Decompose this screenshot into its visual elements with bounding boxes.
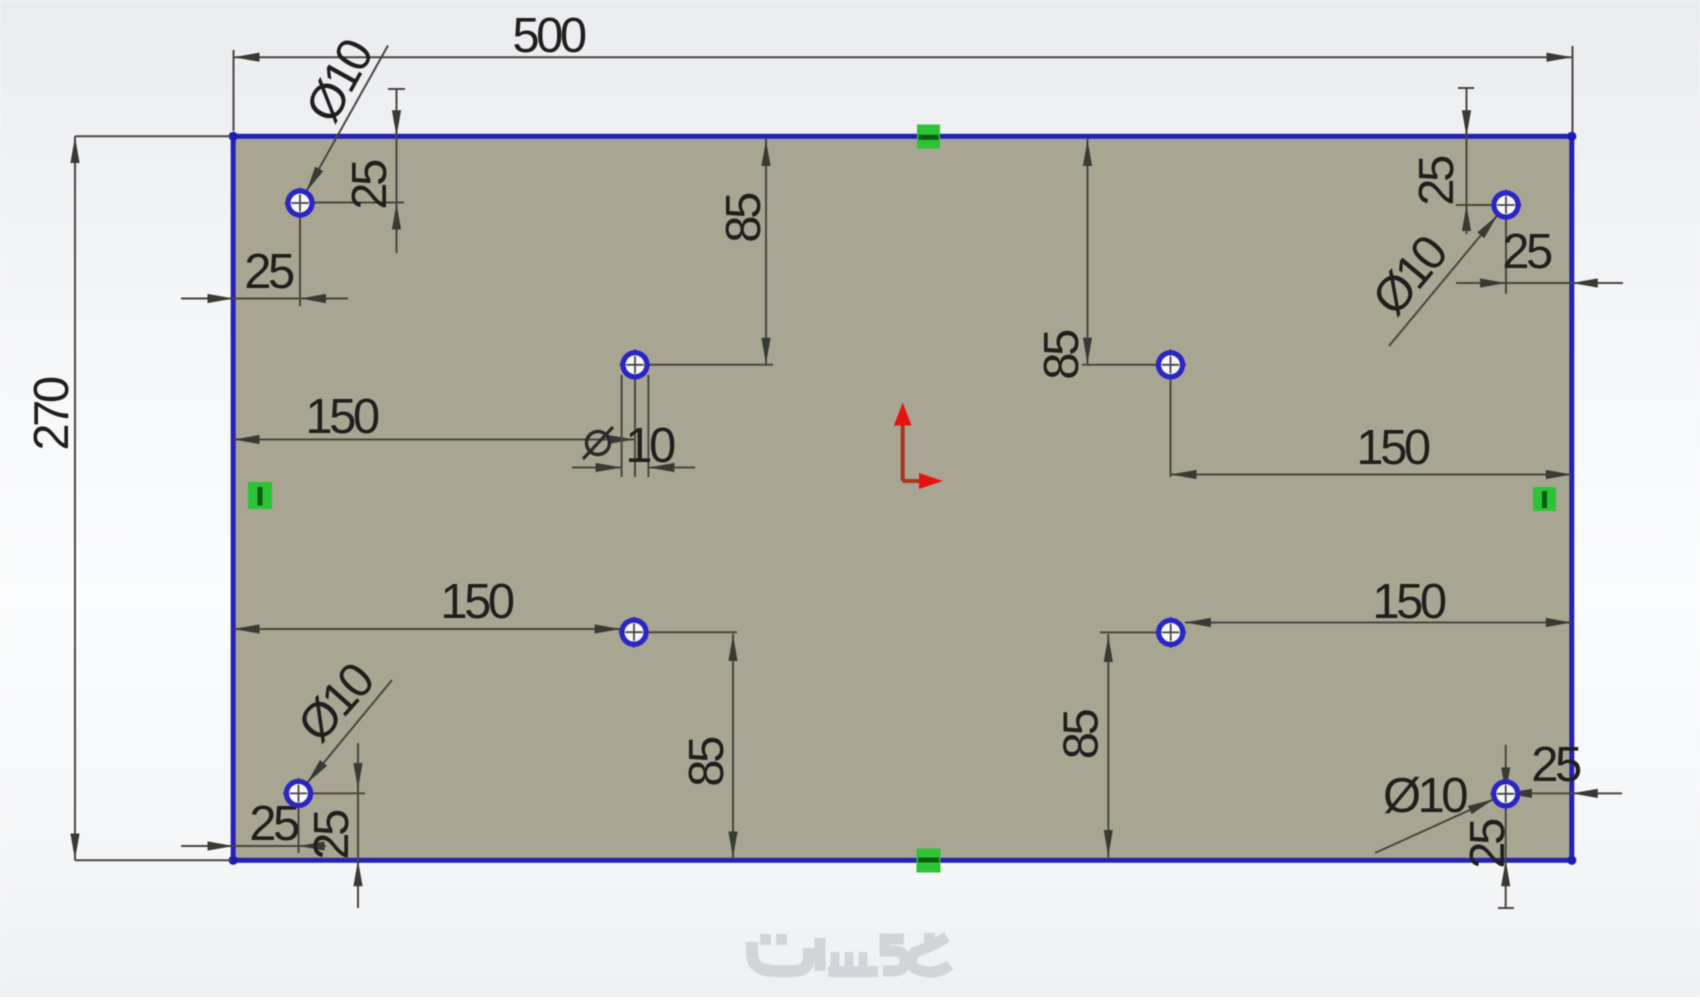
diameter leader arrow hole A4	[1468, 799, 1494, 814]
dimension 25 horizontal text (hole A2)	[1502, 225, 1552, 279]
origin marker (red axes)	[894, 403, 943, 490]
dimension 25 horizontal extension (hole A3)	[298, 793, 300, 853]
dimension 25 horizontal extension (hole A1)	[299, 203, 301, 306]
diameter leader arrow hole A3	[307, 760, 327, 783]
plate corner vertex top-right	[1567, 132, 1576, 141]
dimension 25 vertical extension (hole A2)	[1456, 204, 1506, 206]
dimension 85 text (hole C2)	[1055, 710, 1109, 760]
dimension 25 vertical line (hole A3)	[357, 743, 359, 908]
svg-text:25: 25	[1461, 819, 1515, 869]
dimension 85 line (hole B1)	[765, 139, 767, 364]
dimension 150 text (bottom-right)	[1372, 575, 1446, 629]
relation handle left-middle (vertical)	[248, 482, 272, 509]
dimension 25 horizontal arrow right (hole A1)	[300, 294, 326, 303]
svg-text:150: 150	[1356, 421, 1430, 475]
dimension 85 arrow top (hole B1)	[761, 140, 770, 166]
svg-text:25: 25	[1410, 156, 1464, 206]
plate corner vertex top-left	[229, 132, 238, 141]
dimension 25 horizontal text (hole A3)	[249, 797, 299, 851]
dimension 25 horizontal arrow left (hole A4)	[1506, 789, 1532, 798]
diameter leader arrow hole A1	[307, 167, 324, 192]
dimension 85 arrow top (hole B2)	[1083, 140, 1092, 166]
dimension 25 horizontal line (hole A4)	[1492, 792, 1622, 794]
dimension 150 line (top-right)	[1171, 474, 1572, 476]
dimension 25 vertical text (hole A4)	[1461, 819, 1515, 869]
dimension 85 line (hole C2)	[1107, 634, 1109, 858]
hole B1 (upper middle-left)	[620, 349, 651, 380]
dimension 85 text (hole B2)	[1035, 330, 1089, 380]
dimension 25 vertical arrow bottom (hole A4)	[1501, 860, 1510, 886]
diameter 10 arrow left (hole B1)	[596, 463, 622, 472]
svg-text:500: 500	[512, 9, 586, 63]
hole A2 (top-right)	[1491, 190, 1522, 221]
dimension 500 extension line right	[1572, 46, 1574, 132]
dimension 500 arrow right	[1547, 53, 1573, 62]
dimension 500 arrow left	[234, 53, 260, 62]
svg-text:85: 85	[680, 737, 734, 787]
dimension 270 arrow bottom	[70, 834, 79, 860]
dimension 85 arrow bottom (hole B2)	[1083, 338, 1092, 364]
svg-text:85: 85	[1055, 710, 1109, 760]
dimension 25 horizontal arrow right (hole A2)	[1572, 278, 1598, 287]
dimension 500 text	[512, 9, 586, 63]
dimension 25 horizontal extension (hole A2)	[1505, 218, 1507, 294]
dimension 85 arrow top (hole C2)	[1104, 636, 1113, 662]
dimension 25 vertical arrow top (hole A3)	[353, 763, 362, 789]
dimension 85 arrow bottom (hole C2)	[1104, 830, 1113, 856]
relation handle top-center (horizontal)	[917, 125, 940, 149]
svg-text:150: 150	[440, 575, 514, 629]
svg-text:25: 25	[244, 245, 294, 299]
dimension 85 extension (hole B1)	[635, 364, 773, 366]
plate corner vertex bottom-left	[229, 856, 238, 865]
diameter text hole A4	[1383, 769, 1467, 823]
diameter 10 dim line left (hole B1)	[572, 467, 622, 469]
diameter leader hole A2	[1389, 215, 1497, 346]
svg-text:270: 270	[25, 377, 79, 451]
dimension 25 vertical line (hole A2)	[1458, 88, 1474, 234]
diameter 10 arrow right (hole B1)	[648, 463, 674, 472]
diameter text hole A2	[1362, 226, 1458, 325]
dimension 85 arrow bottom (hole B1)	[761, 338, 770, 364]
plate corner vertex bottom-right	[1567, 856, 1576, 865]
relation handle right-middle (vertical)	[1533, 487, 1556, 511]
diameter leader arrow hole A2	[1477, 215, 1497, 238]
dimension 25 vertical line (hole A1)	[388, 89, 405, 253]
dimension 25 horizontal text (hole A1)	[244, 245, 294, 299]
dimension 85 text (hole C1)	[680, 737, 734, 787]
dimension 150 arrow right (bottom-right)	[1546, 618, 1572, 627]
svg-text:150: 150	[1372, 575, 1446, 629]
dimension 85 text (hole B1)	[717, 193, 771, 243]
dimension 150 text (top-right)	[1356, 421, 1430, 475]
dimension 25 vertical arrow bottom (hole A1)	[392, 204, 401, 230]
dimension 25 vertical arrow top (hole A1)	[392, 110, 401, 136]
dimension 25 horizontal arrow left (hole A3)	[208, 841, 234, 850]
dimension 270 arrow top	[70, 137, 79, 163]
dimension 270 text	[25, 377, 79, 451]
dimension 25 horizontal arrow right (hole A4)	[1572, 789, 1598, 798]
dimension 25 vertical arrow bottom (hole A2)	[1462, 205, 1471, 231]
svg-text:25: 25	[1502, 225, 1552, 279]
dimension 150 arrow left (top-left)	[234, 435, 260, 444]
dimension 270 line	[74, 136, 76, 860]
dimension 25 horizontal arrow right (hole A3)	[299, 841, 325, 850]
dimension 270 extension line bottom	[75, 859, 231, 861]
dimension 500 extension line left	[233, 50, 235, 131]
dimension 85 arrow bottom (hole C1)	[728, 832, 737, 858]
hole A1 (top-left)	[285, 188, 316, 219]
svg-text:85: 85	[1035, 330, 1089, 380]
dimension 85 line (hole B2)	[1087, 139, 1089, 364]
svg-text:10: 10	[625, 419, 675, 473]
hole A4 (bottom-right)	[1490, 778, 1521, 809]
dimension 150 arrow right (top-right)	[1546, 470, 1572, 479]
dimension 25 vertical text (hole A3)	[305, 810, 359, 860]
diameter leader hole A3	[307, 680, 392, 783]
diameter 10 dim line right (hole B1)	[648, 467, 695, 469]
dimension 150 line (bottom-right)	[1185, 622, 1572, 624]
svg-text:85: 85	[717, 193, 771, 243]
dimension 150 extension (hole C2)	[1100, 631, 1171, 633]
svg-text:25: 25	[305, 810, 359, 860]
dimension 150 arrow right (top-left)	[608, 435, 634, 444]
svg-text:Ø10: Ø10	[1383, 769, 1467, 823]
watermark khamsat logo	[752, 933, 950, 972]
dimension 25 vertical text (hole A1)	[343, 160, 397, 210]
dimension 150 arrow left (bottom-right)	[1185, 618, 1211, 627]
dimension 25 vertical extension (hole A3)	[299, 792, 366, 794]
dimension 150 extension (hole B2)	[1170, 378, 1172, 477]
dimension 85 line (hole C1)	[732, 634, 734, 858]
dimension 150 arrow left (bottom-left)	[234, 624, 260, 633]
diameter 10 symbol (hole B1)	[583, 427, 613, 459]
hole A3 (bottom-left)	[283, 778, 314, 809]
dimension 25 vertical arrow top (hole A4)	[1501, 767, 1510, 793]
dimension 25 vertical extension (hole A1)	[300, 202, 404, 204]
svg-text:150: 150	[305, 390, 379, 444]
plate outline (500x270 sheet)	[233, 136, 1572, 860]
svg-text:25: 25	[343, 160, 397, 210]
dimension 25 vertical line (hole A4)	[1498, 745, 1514, 908]
dimension 150 arrow right (bottom-left)	[595, 624, 621, 633]
dimension 150 line (top-left)	[234, 439, 635, 441]
dimension 25 horizontal arrow left (hole A1)	[208, 294, 234, 303]
dimension 150 line (bottom-left)	[234, 628, 621, 630]
diameter text hole A1	[296, 31, 384, 131]
dimension 270 extension line top	[75, 135, 231, 137]
dimension 25 vertical text (hole A2)	[1410, 156, 1464, 206]
dimension 25 vertical arrow bottom (hole A3)	[353, 860, 362, 886]
hole C2 (lower middle-right)	[1155, 617, 1186, 648]
dimension 85 extension (hole C1)	[634, 631, 737, 633]
dimension 500 line	[234, 56, 1573, 58]
dimension 25 vertical arrow top (hole A2)	[1462, 110, 1471, 136]
relation handle bottom-center (horizontal)	[917, 849, 941, 873]
diameter leader hole A1	[306, 46, 388, 193]
dimension 25 horizontal line (hole A2)	[1456, 282, 1623, 284]
svg-text:25: 25	[1531, 738, 1581, 792]
dimension 150 arrow left (top-right)	[1171, 470, 1197, 479]
diameter 10 text (hole B1)	[625, 419, 675, 473]
dimension 25 horizontal line (hole A1)	[181, 298, 348, 300]
diameter leader hole A4	[1375, 799, 1494, 853]
hole B2 (upper middle-right)	[1155, 349, 1186, 380]
dimension 150 text (top-left)	[305, 390, 379, 444]
dimension 25 horizontal line (hole A3)	[181, 845, 326, 847]
dimension 25 horizontal text (hole A4)	[1531, 738, 1581, 792]
dimension 25 horizontal arrow left (hole A2)	[1480, 278, 1506, 287]
dimension 150 text (bottom-left)	[440, 575, 514, 629]
dimension 85 arrow top (hole C1)	[728, 635, 737, 661]
diameter 10 extension lines (hole B1)	[622, 375, 649, 477]
diameter text hole A3	[288, 653, 385, 752]
hole C1 (lower middle-left)	[619, 617, 650, 648]
dimension 85 extension (hole B2)	[1082, 364, 1170, 366]
